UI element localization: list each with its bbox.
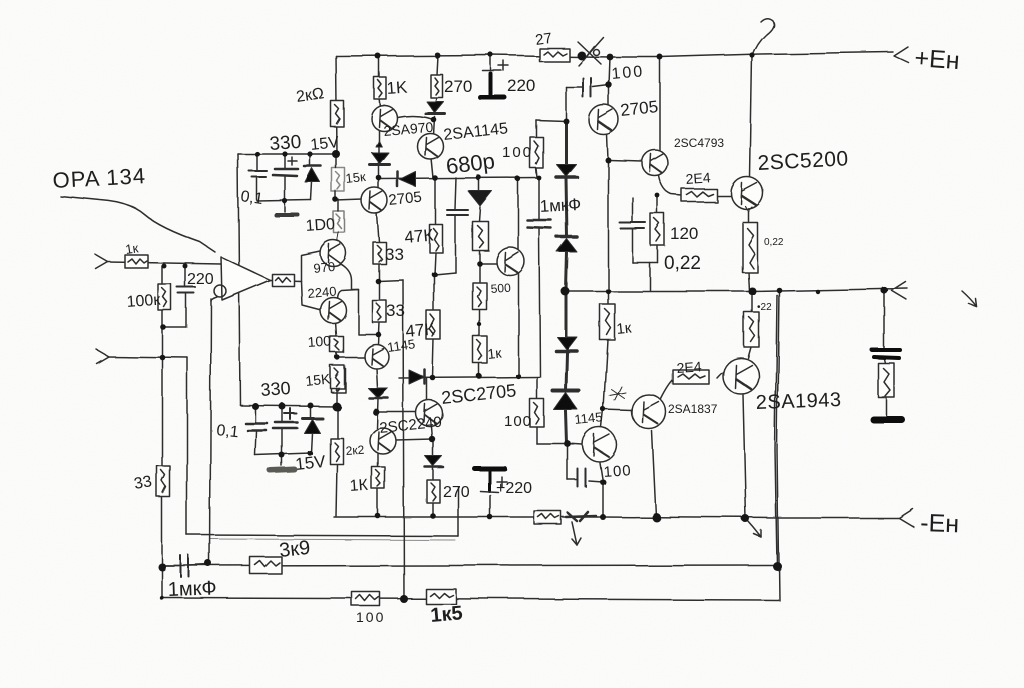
wire 15K mid stubs <box>335 388 337 406</box>
wire y274 to cap 680p <box>434 178 456 274</box>
zener D-15V upper <box>304 166 321 182</box>
svg-text:100: 100 <box>356 609 385 625</box>
resistor R-100 right of diode col <box>530 137 543 168</box>
wire D2 node to Q970top <box>397 116 433 120</box>
wire x379 column <box>376 130 379 516</box>
op-amp U1 OPA134 <box>214 257 270 300</box>
svg-text:100: 100 <box>504 413 532 430</box>
diode D4 on x479 <box>468 191 492 206</box>
svg-text:500: 500 <box>490 281 511 296</box>
wire x518 column <box>517 178 519 377</box>
wire mid output rail <box>565 288 907 291</box>
transistor Q-2SC5200 <box>731 177 763 211</box>
capacitor C-0.1 lower <box>245 423 267 430</box>
resistor R-2k2 lower <box>330 438 343 464</box>
svg-text:33: 33 <box>385 245 404 264</box>
wire left drop from +En rail to bias rail <box>336 56 337 153</box>
wire base 2705 upper <box>336 200 363 201</box>
transistor Q-1145 mid <box>364 344 388 368</box>
diode DC2 column <box>557 237 577 252</box>
diode DC4 column <box>553 391 579 410</box>
capacitor C-220 bottom electrolytic <box>474 468 506 492</box>
resistor R-47K upper <box>429 224 442 252</box>
transistor Q-2SA1837 <box>632 395 666 429</box>
diode DC3 column <box>556 337 577 351</box>
svg-text:2SA1837: 2SA1837 <box>668 402 718 416</box>
wire cap100 top link <box>536 85 609 178</box>
wire y178 bus <box>379 178 540 179</box>
wire input 2 <box>107 356 187 357</box>
zener D-15V lower <box>302 418 322 433</box>
wire x609 column <box>600 57 610 517</box>
wire 1K upper stub <box>379 56 380 107</box>
transistor Q-2240 <box>320 297 346 323</box>
resistor R zobel <box>878 363 894 397</box>
svg-text:1к: 1к <box>487 345 503 362</box>
wire 4793 emitter to 2E4 to 5200 <box>659 176 731 196</box>
svg-text:0,1: 0,1 <box>216 422 240 441</box>
resistor R-15K lower <box>331 368 345 392</box>
diode D5 above 2240 lower <box>368 388 388 398</box>
wire 220 lower stub <box>489 495 491 517</box>
resistor R-1k mid lower <box>600 304 615 340</box>
svg-text:15V: 15V <box>294 452 327 474</box>
diode D6 above 270 bottom <box>425 456 443 467</box>
capacitor C at 120 <box>620 223 646 229</box>
resistor R-500 <box>472 282 486 309</box>
wire output to Q2240 base <box>301 281 321 310</box>
resistor R-2k upper <box>331 101 344 127</box>
wire bias block upper stubs <box>257 154 312 212</box>
capacitor C-0.1 upper <box>249 171 267 177</box>
wire feedback y565 <box>162 565 777 566</box>
wire long left vertical x238 <box>238 154 240 405</box>
svg-text:3к9: 3к9 <box>278 537 311 562</box>
scribble X on top rail <box>577 37 603 65</box>
svg-text:2705: 2705 <box>619 97 659 120</box>
svg-text:100к: 100к <box>126 292 162 311</box>
wire 120 resistor stubs <box>633 196 658 290</box>
wire y535 horizontal <box>187 535 458 540</box>
resistor R series -En rail <box>534 511 561 524</box>
svg-text:+Ен: +Ен <box>914 44 961 75</box>
wire -En rail <box>334 517 899 518</box>
resistor R-0.22 lower <box>744 312 759 347</box>
resistor R-33 input <box>157 466 170 497</box>
svg-text:OPA 134: OPA 134 <box>52 163 147 193</box>
wire x479 column <box>479 178 480 377</box>
transistor Q-1145 lower <box>583 428 617 462</box>
wire base center transistor <box>479 262 496 264</box>
resistor R-0.22 upper <box>742 222 757 272</box>
svg-text:0,22: 0,22 <box>664 253 701 274</box>
resistor R-1k center <box>473 336 487 363</box>
resistor R-270 top <box>430 74 442 97</box>
svg-text:270: 270 <box>443 484 470 501</box>
svg-text:2SC5200: 2SC5200 <box>757 147 849 175</box>
resistor R-100 feedback <box>352 592 380 606</box>
svg-text:330: 330 <box>269 132 302 155</box>
svg-text:220: 220 <box>507 76 535 95</box>
capacitor C-1mkF center <box>527 220 551 228</box>
wire zobel column x884 <box>884 290 886 415</box>
resistor R-33 upper <box>373 242 386 264</box>
curl pigtail on top rail <box>752 18 773 55</box>
wire 47K column <box>433 178 435 378</box>
wire x458 vertical <box>457 487 459 536</box>
capacitor C-330 lower <box>273 408 297 428</box>
resistor R-120 <box>651 214 665 246</box>
wire base 2SA1837 <box>603 410 632 411</box>
arrow down below -En rail <box>572 522 581 545</box>
wire base 2SC4793 <box>609 160 643 161</box>
resistor R-1K bottom <box>372 467 385 489</box>
diode D3 left-pointing on y178 bus <box>398 172 416 187</box>
svg-text:2705: 2705 <box>388 189 423 209</box>
svg-text:100: 100 <box>502 144 533 161</box>
wire emitters of Q970/Q2240 <box>335 264 378 336</box>
resistor R-27 series top <box>539 48 569 61</box>
arrow input 2 <box>96 349 108 363</box>
wire top +En rail <box>336 52 893 57</box>
resistor R-2E4 lower <box>673 370 709 384</box>
wire 15k upper column <box>336 154 339 243</box>
resistor R-3k9 <box>250 557 282 574</box>
svg-text:0,1: 0,1 <box>239 188 263 208</box>
resistor R-270 bottom <box>427 480 440 503</box>
capacitor C-220 opamp <box>177 287 195 293</box>
resistor R-100 at 1145 mid <box>330 336 343 352</box>
wire x752 collector 5200 <box>750 55 752 177</box>
wire inverting input x210 <box>210 299 211 564</box>
capacitor C zobel <box>872 350 900 358</box>
resistor R-100k <box>158 284 171 310</box>
arrow small at 1943 collector <box>748 521 761 537</box>
wire D2 cathode node to 2SA1145 <box>433 116 434 135</box>
wire 2SA1145 emitter <box>431 158 433 178</box>
svg-text:1к: 1к <box>124 240 139 257</box>
svg-text:27: 27 <box>534 30 553 49</box>
resistor R-680p-col upper <box>472 221 488 250</box>
transistor Q-2SC4793 <box>642 150 668 176</box>
diode arrow small under Q970top <box>376 141 382 147</box>
resistor R-15K mid <box>330 365 344 388</box>
arrow mid output <box>891 281 906 299</box>
svg-text:2Е4: 2Е4 <box>685 169 711 187</box>
transistor Q-2SC2240 lower <box>370 428 396 454</box>
wire output tap x778 doubled <box>775 291 779 600</box>
diode D2 under 270 <box>425 101 444 113</box>
wire opamp output <box>270 280 301 281</box>
wire cap100 lower link <box>568 444 603 482</box>
wire input 1 <box>107 262 221 264</box>
wire cap220 opamp <box>164 266 186 327</box>
arrow below mid rail right <box>962 291 977 307</box>
svg-text:1D0: 1D0 <box>305 216 336 235</box>
svg-text:+220: +220 <box>496 480 532 497</box>
resistor R-1k5 <box>426 589 456 604</box>
wire bias diode column x566 <box>566 121 567 444</box>
svg-text:•22: •22 <box>757 302 772 313</box>
wire 100 to base 1145 mid <box>336 352 364 357</box>
wire 1837 emitter to 2E4 to 1943 base <box>661 369 728 399</box>
svg-text:15к: 15к <box>345 169 367 186</box>
wire y377 bus <box>399 377 540 378</box>
resistor R-100 bottom-center <box>530 399 544 427</box>
svg-text:33: 33 <box>386 301 405 320</box>
transistor Q-2SA970 top <box>371 105 397 131</box>
svg-text:970: 970 <box>313 259 336 276</box>
wire upper bias rail 330/15V <box>238 153 337 155</box>
resistor R-1K top <box>374 77 386 99</box>
svg-text:2SА1943: 2SА1943 <box>755 389 842 414</box>
resistor R-47K lower <box>427 311 441 340</box>
transistor Q-2705 bottom <box>416 400 442 426</box>
transistor Q-2SA1145 <box>417 133 443 159</box>
scribble mark near 2SA1837 <box>610 387 626 401</box>
wire y444 base 1145 lower <box>537 378 583 445</box>
wire 1837 collector <box>652 431 656 517</box>
svg-text:1K: 1K <box>386 78 409 98</box>
capacitor C-100 top <box>583 78 591 97</box>
svg-text:330: 330 <box>260 378 291 400</box>
scribble arrows on -En rail <box>566 512 596 521</box>
svg-text:1мкФ: 1мкФ <box>167 577 217 601</box>
wire 2k2 lower column <box>336 406 337 516</box>
resistor R-2E4 upper <box>682 189 717 202</box>
resistor R-1k input <box>125 255 148 268</box>
arrow input 1 <box>96 255 108 269</box>
svg-text:100: 100 <box>603 462 632 481</box>
wire 1943 collector to -En <box>743 395 746 519</box>
resistor R-100 opamp out <box>272 274 294 286</box>
svg-text:120: 120 <box>670 224 698 243</box>
wire feedback y599 <box>162 598 778 600</box>
arrow +En <box>894 47 909 63</box>
svg-text:100: 100 <box>611 63 645 83</box>
wire Q2705btm collector chain <box>427 378 433 516</box>
svg-text:1145: 1145 <box>574 409 603 427</box>
wire opamp bubble to x210 <box>211 297 217 301</box>
capacitor C-330 upper <box>273 157 298 176</box>
wire 0.22 lower / 1943 <box>748 291 752 358</box>
svg-text:2к2: 2к2 <box>345 443 365 458</box>
ground lower bias <box>271 470 295 471</box>
transistor Q-2705 top right <box>589 105 619 135</box>
svg-text:1к: 1к <box>616 319 633 338</box>
capacitor C-680p left <box>447 210 468 215</box>
svg-text:1мкФ: 1мкФ <box>539 195 581 216</box>
wire 5200 emitter <box>748 211 749 291</box>
wire 220 upper stub <box>490 55 492 70</box>
capacitor C-220 top electrolytic <box>481 61 509 98</box>
transistor Q-2705 left <box>362 188 388 214</box>
resistor R-33 lower <box>372 300 386 322</box>
svg-text:2Е4: 2Е4 <box>676 358 702 376</box>
svg-text:2SC4793: 2SC4793 <box>674 136 724 150</box>
diode D1 under Q970top <box>370 153 390 165</box>
svg-text:100: 100 <box>307 332 332 350</box>
svg-text:1К: 1К <box>349 477 369 495</box>
transistor Q-970 <box>320 240 346 266</box>
diode DC1 column <box>556 164 577 177</box>
ground upper bias <box>276 213 298 217</box>
svg-text:47К: 47К <box>404 226 434 247</box>
wire x187 vertical <box>186 357 188 535</box>
svg-text:2240: 2240 <box>307 284 337 301</box>
ground zobel <box>873 416 901 423</box>
svg-text:1к5: 1к5 <box>430 602 464 627</box>
wire OPA134 pointer <box>60 196 215 252</box>
svg-text:220: 220 <box>187 271 214 288</box>
svg-text:-Ен: -Ен <box>920 509 960 538</box>
capacitor C-1mkF input <box>162 556 209 577</box>
wire x162 input ground column <box>161 266 163 598</box>
wire node 33-divider to x403 <box>378 280 403 281</box>
svg-text:270: 270 <box>444 77 472 96</box>
resistor R-100 bias upper <box>334 212 345 233</box>
resistor R-15k upper <box>332 168 345 192</box>
diode D7 right-pointing on y377 bus <box>409 370 425 384</box>
svg-text:15K: 15K <box>305 370 332 389</box>
wire x539 column with 1mkF <box>539 178 540 377</box>
transistor Q-center <box>496 247 524 275</box>
wire x403 long vertical <box>403 280 404 599</box>
wire x660 collector 4793 <box>659 57 661 150</box>
wire output to Q970 base <box>301 251 320 281</box>
wire lower bias rail 330/15V <box>240 405 337 406</box>
wire bias block lower stubs <box>255 405 312 466</box>
svg-text:15V: 15V <box>310 134 340 154</box>
capacitor C-100 lower <box>578 469 586 487</box>
wire node 412 to 2705btm base <box>378 411 416 413</box>
wire 270 upper stub <box>435 55 437 101</box>
arrow -En <box>899 509 914 527</box>
svg-text:33: 33 <box>133 473 154 493</box>
transistor Q-2SA1943 <box>723 358 759 394</box>
svg-text:0,22: 0,22 <box>764 237 784 248</box>
wire 2240 lower base link <box>396 439 432 440</box>
